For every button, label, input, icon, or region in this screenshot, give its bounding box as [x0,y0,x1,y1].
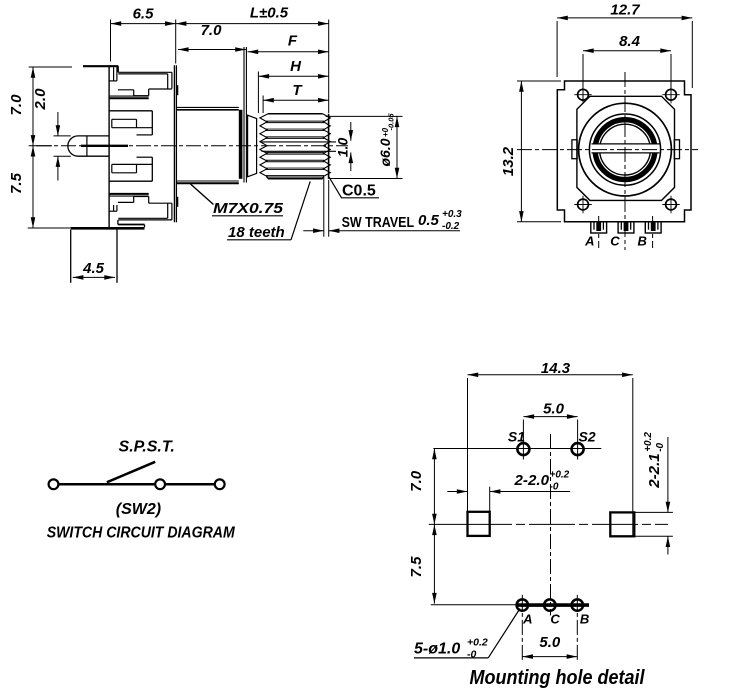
svg-text:Mounting hole detail: Mounting hole detail [470,667,645,689]
dim line 5.0 bottom [522,656,577,658]
tooth line y=129.8 [266,128,324,130]
second ring [589,114,660,185]
clip step [149,88,172,90]
svg-text:1.0: 1.0 [335,138,351,158]
dim line 7.0 vertical [32,67,34,146]
teeth top edge [268,113,323,115]
bottom flange thick [71,227,145,230]
tooth line y=161.0 [266,159,324,161]
outer ring [579,103,672,196]
side tab right [674,140,679,159]
sw travel line 1 [323,177,325,237]
ext line 6.5 left [110,20,112,62]
lower shelf thick [109,193,149,195]
upper shelf thick [109,97,149,99]
dim line L [176,23,329,25]
dim line 7.0 mounting [433,449,435,525]
svg-text:+0.2: +0.2 [643,432,654,452]
bottom hole C [544,599,555,610]
bottom row ext [431,604,517,606]
teeth right zigzag [323,114,331,179]
ext 14.3 left [467,378,469,512]
svg-text:5.0: 5.0 [539,634,561,651]
bushing bottom inner [176,180,238,182]
bottom notch [113,205,115,211]
5-dia1.0 underline [414,657,488,659]
svg-text:-0.05: -0.05 [387,113,396,131]
screw hole at 583,204.5 [578,199,589,210]
dim line H [258,75,328,77]
teeth bottom edge [268,178,323,180]
nut bar [239,110,243,179]
ext line centre [29,145,52,147]
ext 12.7 right [691,21,693,88]
svg-text:S2: S2 [579,429,596,445]
svg-text:7.0: 7.0 [201,22,223,39]
svg-text:C: C [610,234,620,249]
bottom flange [117,220,119,225]
dim line 8.4 [583,50,671,52]
ext 12.7 left [556,21,558,77]
sw travel arrow left [303,230,324,232]
C0.5 underline [341,197,379,199]
dim line dia6.0 [396,116,398,178]
5-dia1.0 leader [488,609,520,658]
dim line 13.2 [520,81,522,222]
shaft slot [592,144,660,153]
ext 13.2 top [517,80,561,82]
switch terminal middle [155,479,165,489]
rotor square [577,96,675,200]
svg-text:6.5: 6.5 [133,6,155,23]
svg-text:12.7: 12.7 [610,2,640,19]
pad right ext [489,487,491,512]
svg-text:B: B [580,612,589,627]
svg-text:+0.2: +0.2 [550,470,570,481]
ext 8.4 right [670,54,672,101]
dim line 14.3 [468,374,633,376]
upper plate [109,110,152,112]
svg-text:L±0.5: L±0.5 [250,5,289,22]
switch terminal left [49,479,59,489]
tooth line y=153.4 [266,152,324,154]
switch lever [107,462,155,483]
ext 8.4 left [582,54,584,101]
terminal pin edge thick [81,145,128,147]
svg-text:ø6.0: ø6.0 [377,138,393,166]
S1 hole [517,443,529,455]
lower clip step [118,201,134,203]
switch wire left [59,483,155,486]
2.0 arrow left [447,491,467,493]
svg-text:4.5: 4.5 [82,260,105,277]
M7X0.75 underline [212,215,283,217]
middle terminal [68,136,78,156]
ext line bottom [28,227,71,229]
front pin at 653.2 [645,222,661,233]
dim line F [248,51,329,53]
C0.5 leader [329,177,342,198]
2.1 ext top [635,511,673,513]
S2 hole [572,443,584,455]
svg-text:S.P.S.T.: S.P.S.T. [119,439,175,456]
svg-text:A: A [522,612,532,627]
dim arrow 2.0 lower [57,156,59,180]
M7X0.75 leader [191,184,214,205]
dim line 5.0 top [523,416,577,418]
dim line 7.0 [178,49,246,51]
2.1 arrow top [667,437,669,512]
2.1 arrow bottom [667,536,669,554]
svg-text:7.5: 7.5 [8,172,25,194]
dim line T [263,99,329,101]
svg-text:0.5: 0.5 [418,212,440,229]
dim line 7.5 mounting [433,524,435,603]
2.0 arrow right [490,491,571,493]
svg-text:2.0: 2.0 [32,88,49,111]
svg-text:18 teeth: 18 teeth [228,224,285,241]
shaft slot bottom [262,150,337,152]
top notch [113,67,115,81]
dim text dia6.0 [377,113,396,167]
svg-text:8.4: 8.4 [619,33,641,50]
svg-text:SW TRAVEL: SW TRAVEL [342,214,415,231]
screw hole at 671,204.5 [666,199,677,210]
ext line dia6 bottom [329,178,402,180]
ext S1 [522,420,524,460]
bottom hole B [572,599,583,610]
shaft slot top [262,141,337,143]
2.1 ext bottom [635,535,673,537]
ext 14.3 right [632,378,634,536]
centerline side view [36,145,348,147]
svg-text:7.0: 7.0 [408,470,425,492]
dim arrow 1.0 upper [350,122,352,141]
lower shelf [109,195,149,197]
bottom clip inner [118,217,167,219]
body corner vert [117,66,119,72]
sw travel line 2 [328,180,330,237]
mounting face outer [173,65,175,222]
svg-text:H: H [290,58,302,75]
ext line top [29,66,72,68]
svg-text:2-2.0: 2-2.0 [513,472,549,489]
svg-text:C0.5: C0.5 [342,183,376,200]
screw hole at 671,94.7 [666,89,677,100]
switch wire right [165,483,214,486]
bushing bottom outer [176,182,238,184]
svg-text:5.0: 5.0 [543,401,565,418]
svg-text:+0.3: +0.3 [442,209,462,220]
ext line L right / shaft end [328,20,330,114]
switch terminal right [215,479,225,489]
svg-text:F: F [288,33,298,50]
svg-text:7.0: 7.0 [8,94,25,116]
washer line 2 [245,47,247,183]
teeth left zigzag [260,114,268,179]
bottom tab right [116,230,118,283]
lower plate [137,156,153,158]
front pin at 598.7 [591,222,607,233]
bushing top outer [176,106,238,108]
svg-text:5-ø1.0: 5-ø1.0 [414,641,460,658]
tooth line y=176.4 [266,175,324,177]
svg-text:+0.2: +0.2 [467,637,488,649]
screw hole at 583,94.7 [578,89,589,100]
svg-text:SWITCH CIRCUIT DIAGRAM: SWITCH CIRCUIT DIAGRAM [47,525,236,542]
ext line H left [257,72,259,114]
S1S2 row line [433,448,601,450]
svg-text:A: A [584,234,594,249]
dim arrow 2.0 upper [57,112,59,136]
body left edge [108,65,110,228]
mounting face inner [175,65,177,222]
ext line L left [175,20,177,64]
18 teeth underline [227,239,291,241]
svg-text:B: B [638,234,647,249]
svg-text:2-2.1: 2-2.1 [646,453,663,489]
bushing top inner [176,109,238,111]
front body outline [557,81,691,222]
collar [248,115,257,177]
body top-left protrusion [83,65,118,67]
svg-text:(SW2): (SW2) [116,501,161,518]
ext line dia6 top [326,115,403,117]
svg-text:C: C [550,612,560,627]
washer line 1 / ext 7.0-F [243,47,245,183]
bottom row thick bar [517,603,589,607]
side tab left [572,140,577,159]
dim text 2-2.1 [643,432,666,489]
bottom hole A [517,599,528,610]
ext tick 2.0 bottom [54,155,71,157]
ext 13.2 bottom [517,221,561,223]
svg-text:7.5: 7.5 [408,556,425,578]
ext tick 2.0 top [54,135,71,137]
black ring [595,120,655,180]
ext line T left [262,96,264,114]
dim line 7.5 vertical [32,146,34,228]
top clip inner [118,73,167,75]
18 teeth leader [291,181,310,239]
shaft end edge [328,114,330,179]
dim line 12.7 [557,17,692,19]
svg-text:M7X0.75: M7X0.75 [213,200,284,217]
dim line 4.5 [73,276,115,278]
inner circle [600,124,651,175]
sw travel arrow right [329,230,460,232]
left pad [468,512,490,536]
front pin at 626.0 [618,222,634,233]
upper shelf [109,95,149,97]
dim arrow 1.0 lower [350,152,352,171]
right pad [610,512,634,536]
ext S2 [577,420,579,460]
tooth line y=121.9 [266,120,324,122]
bottom clip outer [118,219,172,221]
svg-text:-0: -0 [655,442,666,451]
tooth line y=137.6 [266,136,324,138]
tooth line y=168.8 [266,167,324,169]
pads mid ext [429,523,466,525]
svg-text:13.2: 13.2 [500,146,517,176]
dim line 6.5 [111,23,176,25]
bottom tab left [70,230,72,283]
svg-text:-0: -0 [467,649,476,661]
top clip outer [118,71,172,73]
